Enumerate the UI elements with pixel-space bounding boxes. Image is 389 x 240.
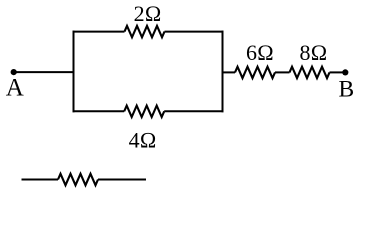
wire left vertical of parallel box [73, 31, 75, 113]
svg-text:6Ω: 6Ω [246, 40, 274, 65]
node B [342, 69, 348, 75]
wire bottom-left lead [73, 110, 125, 112]
node A [11, 69, 17, 75]
wire A to parallel box [14, 71, 75, 73]
wire box to 6ohm [223, 71, 236, 73]
wire right vertical of parallel box [222, 31, 224, 113]
svg-text:A: A [6, 75, 24, 102]
svg-text:2Ω: 2Ω [134, 1, 162, 26]
resistor 4ohm (bottom branch) [124, 106, 164, 117]
svg-text:B: B [339, 77, 355, 103]
svg-text:8Ω: 8Ω [300, 40, 328, 65]
wire top-left lead [73, 31, 125, 33]
resistor 6ohm [235, 67, 275, 78]
resistor standalone (answer sketch) [58, 174, 98, 185]
svg-text:4Ω: 4Ω [129, 128, 157, 153]
wire bottom-right lead [164, 110, 223, 112]
wire standalone left lead [22, 179, 59, 181]
resistor 2ohm (top branch) [125, 26, 165, 37]
wire 6ohm to 8ohm [275, 71, 290, 73]
wire 8ohm to node B [330, 71, 346, 73]
wire top-right lead [165, 31, 224, 33]
wire standalone right lead [98, 179, 146, 181]
resistor 8ohm [290, 67, 330, 78]
